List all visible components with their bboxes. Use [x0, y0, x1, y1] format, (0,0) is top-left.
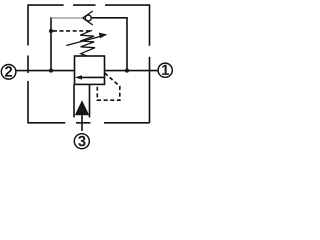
node A: inlet junction [49, 69, 53, 73]
check valve CV1 [83, 11, 93, 25]
wire: port 2 to valve inlet [16, 70, 75, 72]
port 3 [74, 134, 89, 151]
node C: junction on port 1 line [125, 69, 129, 73]
valve outlet channel walls [74, 84, 90, 117]
svg-text:3: 3 [78, 134, 86, 150]
pilot line (dashed) to spring top [53, 30, 92, 32]
wire: port 3 stub [81, 115, 83, 131]
wire: check valve to port 1 drop [91, 18, 127, 71]
relief valve main stage (body box) [75, 56, 105, 84]
svg-text:1: 1 [161, 63, 169, 79]
port 2 [1, 65, 16, 81]
node B: pilot tap junction [49, 29, 53, 33]
svg-text:2: 2 [4, 65, 12, 81]
wire: left pilot rail [50, 17, 52, 70]
wire: valve outlet to port 1 [105, 70, 158, 72]
wire: rail to check valve seat (gray) [51, 17, 83, 19]
valve envelope (dashed boundary) [28, 4, 150, 123]
port 1 [158, 63, 172, 79]
pilot passage (dashed loop, lower right) [97, 73, 120, 100]
adjustment arrow across spring [66, 33, 107, 46]
spring (adjustable) [80, 30, 95, 56]
flow path arrow inside box [75, 75, 105, 79]
flow arrow to port 3 (filled triangle) [75, 100, 90, 115]
